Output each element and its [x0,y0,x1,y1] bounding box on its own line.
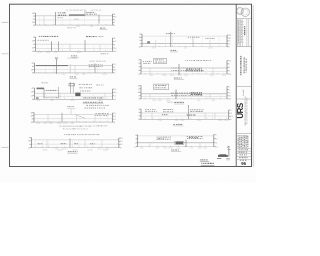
tb row 4 [239,156,247,159]
L1 light bit a [58,16,63,19]
svg-text:7+00: 7+00 [82,74,86,76]
svg-text:13+00: 13+00 [70,100,74,102]
L4 right bits [96,84,103,87]
L3 note block [89,64,103,67]
caption [173,123,183,126]
R4 line core b [187,114,196,117]
revision table row ticks [236,22,244,43]
project name line 3 [246,59,247,73]
info row 3 [242,135,243,148]
tb row 5 [240,159,247,162]
caption [171,149,178,152]
caption [83,101,103,104]
svg-text:10+00: 10+00 [57,149,62,151]
svg-text:11+00: 11+00 [180,120,184,122]
R1 note b [188,36,200,39]
L1 note block b [86,12,97,15]
project name bold line [240,56,241,75]
caption [174,101,183,104]
info row 1 [239,135,240,148]
svg-text:21+00: 21+00 [98,148,102,150]
L5 right note 1 [86,104,108,107]
bold caption line 2 [201,162,213,165]
L6 note c [74,142,77,145]
pump riser detail [217,146,231,162]
svg-text:3+00: 3+00 [71,123,75,125]
svg-text:1+00: 1+00 [90,26,94,28]
L3 marker flag [55,57,57,59]
R3 box text [155,85,167,88]
L1 exist grade dark bar [69,14,85,15]
info row 4 [244,135,245,148]
L6 title line [64,133,99,136]
svg-text:15+00: 15+00 [163,148,167,150]
info row 6 [247,136,248,148]
R5 note a [156,137,170,140]
L1 light bit b [74,18,78,21]
profile strip L3 [31,57,117,78]
info row 2 [241,135,242,147]
svg-text:10+00: 10+00 [102,149,107,151]
profile strip L5 [30,112,116,125]
svg-text:27+00: 27+00 [36,123,40,125]
svg-text:CL TYP PROP W/ 2.10: CL TYP PROP W/ 2.10 [66,10,87,12]
title block strip [235,4,237,166]
svg-text:12+00: 12+00 [224,120,228,122]
L4 wet well text [46,89,56,92]
caption [170,49,176,52]
R4 right notes [190,109,203,112]
svg-text:7+00: 7+00 [190,148,194,150]
PE stamp circle 1 [237,7,244,14]
info row 0 [238,135,239,148]
caption [100,27,105,30]
svg-text:10+00: 10+00 [72,149,77,151]
L6 note d [90,142,95,145]
tb row 3 [240,153,247,156]
L5 slope segment [75,115,85,119]
project name line 2 [244,57,245,73]
bold caption line 1 [200,158,207,161]
profile strip R3 [137,84,231,104]
info row 5 [246,135,247,148]
svg-text:23+00: 23+00 [158,100,162,102]
L5 title [67,105,73,108]
R1 small dark blob [147,41,150,43]
profile strip R1 [138,32,231,52]
revision bold note [244,26,245,35]
L2 note light a2 [37,39,48,42]
R1 note a [166,32,175,35]
svg-text:NOTE CONC SAN: NOTE CONC SAN [167,101,184,104]
svg-text:15+00: 15+00 [63,123,67,125]
profile strip L1 [32,11,117,29]
R2 light notes [171,68,204,72]
caption [68,150,78,153]
svg-text:10+00: 10+00 [87,149,92,151]
L4 riser lines [69,82,71,93]
tb row 2 [238,151,247,154]
svg-text:14+00: 14+00 [62,148,66,150]
profile strip R5 [134,134,218,151]
L3 exist grade dark bar [36,65,68,66]
PE stamp circle 2 [241,8,249,16]
L5 right note 2 [85,107,106,110]
L5 in-band bits [95,113,108,116]
L2 note light b2 [99,35,105,38]
revision table (rotated) [236,19,251,47]
L4 stack note 3 [80,90,90,93]
R4 left notes [145,109,157,112]
R4 line core a [162,113,167,116]
L4 dark pad blob [75,93,80,97]
L1 note block a [58,12,66,15]
profile strip R4 [138,105,234,126]
svg-text:4+00: 4+00 [204,148,208,150]
L5 leader tick [70,109,72,115]
svg-text:10+00: 10+00 [49,123,53,125]
R5 mid dark box [175,141,184,144]
svg-text:GV TYP 5.6: GV TYP 5.6 [91,10,102,12]
svg-text:10+00: 10+00 [210,75,214,77]
svg-text:EL 12+00 SAN 2.10 4.25 CL: EL 12+00 SAN 2.10 4.25 CL [63,128,89,131]
profile strip L4 [31,82,117,104]
paper scan noise [10,4,252,166]
R3 light notes [171,93,203,97]
svg-text:13+00: 13+00 [37,52,41,54]
svg-text:9+00: 9+00 [197,100,201,102]
profile strip R2 [138,58,232,79]
L4 top note left [42,81,49,84]
svg-text:EXIST NOTE 4.25: EXIST NOTE 4.25 [90,61,107,63]
svg-text:5+00: 5+00 [50,100,54,102]
L2 note block a [39,35,58,38]
svg-text:10+00: 10+00 [42,149,47,151]
svg-text:3+00: 3+00 [184,48,188,50]
L4 wet well walls [37,88,45,90]
R1 note c [205,37,215,40]
svg-text:9+00: 9+00 [75,74,79,76]
svg-text:20+00: 20+00 [168,148,172,150]
R5 core b [189,136,199,139]
L6 note a [38,142,42,145]
R5 core a [158,137,163,140]
svg-text:14+00: 14+00 [184,75,188,77]
svg-text:15+00: 15+00 [152,100,156,102]
sheet outer edge shadow [252,5,254,167]
svg-text:TOP PROP: TOP PROP [67,58,78,60]
svg-text:21+00: 21+00 [208,48,212,50]
R5 note b [187,136,203,139]
tb row 1 [239,148,248,151]
svg-text:96: 96 [241,161,246,166]
left margin fold marks [2,21,9,23]
R4 mid notes [163,109,173,112]
svg-text:11+00: 11+00 [170,75,174,77]
L2 note block b [86,35,97,38]
L4 mark [56,96,58,99]
svg-text:14+00: 14+00 [198,148,202,150]
caption [71,54,77,57]
profile strip L2 [32,36,117,57]
svg-text:EL INV EXIST NOTE SAN TYP PAD: EL INV EXIST NOTE SAN TYP PAD [59,125,92,128]
svg-text:2+00: 2+00 [54,52,58,54]
revision texture a [238,20,239,44]
caption [174,77,182,80]
svg-text:27+00: 27+00 [152,48,156,50]
L2 trailing note [101,52,110,55]
svg-text:14+00: 14+00 [155,148,159,150]
svg-text:13+00: 13+00 [76,26,80,28]
sheet border [10,4,252,166]
L4 stack note 2 [79,86,92,89]
R3 structure box [154,84,169,89]
L6 note b [61,142,66,145]
L4 stack note 1 [79,83,92,86]
svg-text:2+00: 2+00 [140,148,144,150]
L4 riser top box [69,84,74,86]
svg-text:1+00: 1+00 [61,74,65,76]
R2 left note [143,61,152,64]
svg-text:CL STA PAD DIP: CL STA PAD DIP [92,124,108,127]
svg-text:PROP GV: PROP GV [67,28,77,30]
L6 station microtext [42,149,107,151]
svg-text:28+00: 28+00 [218,120,222,122]
R2 top note [185,59,212,62]
svg-text:5+00: 5+00 [37,100,41,102]
svg-text:8+00: 8+00 [178,75,182,77]
contract note [243,90,244,96]
svg-text:10+00: 10+00 [46,52,50,54]
R3 dense core [191,92,202,95]
svg-text:5+00: 5+00 [176,148,180,150]
R2 dense core [186,69,203,72]
svg-text:21+00: 21+00 [102,74,106,76]
svg-text:19+00: 19+00 [222,75,226,77]
svg-text:2+00: 2+00 [149,75,153,77]
svg-text:28+00: 28+00 [162,75,166,77]
caption [70,75,76,78]
revision texture b [241,20,242,42]
svg-text:20+00: 20+00 [57,123,61,125]
profile strip L6 [28,134,123,153]
svg-text:18+00: 18+00 [77,52,81,54]
R2 box text [155,59,166,62]
R2 structure box [154,58,167,63]
svg-text:URS: URS [236,102,245,118]
svg-text:1+00: 1+00 [197,120,201,122]
svg-text:8+00: 8+00 [212,100,216,102]
detail ground hatch [218,155,228,157]
svg-text:6+00: 6+00 [44,123,48,125]
svg-text:3+00: 3+00 [158,120,162,122]
L4 text under band [83,96,103,99]
svg-text:2+00: 2+00 [175,120,179,122]
